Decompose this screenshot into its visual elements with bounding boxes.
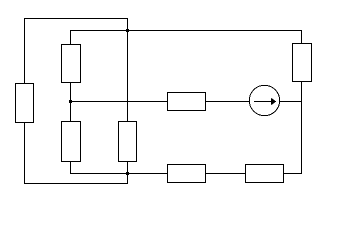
- wire bottom horizontal right segment: [284, 173, 303, 175]
- resistor R6: [168, 93, 206, 111]
- wire column B stub lower: [127, 161, 129, 184]
- wire column A stub middle: [70, 82, 72, 122]
- wire bottom horizontal middle segment: [206, 173, 247, 175]
- wire column B vertical upper: [127, 18, 129, 122]
- current source I1 arrow shaft: [254, 101, 272, 103]
- resistor R1: [16, 84, 34, 123]
- resistor R7: [168, 165, 206, 183]
- resistor R8: [246, 165, 284, 183]
- wire bottom horizontal left segment: [70, 173, 168, 175]
- wire bottom left horizontal: [24, 183, 128, 185]
- wire left vertical lower: [24, 122, 26, 184]
- wire middle horizontal left: [70, 101, 168, 103]
- current source I1 arrow head: [271, 98, 276, 105]
- wire second horizontal: [70, 30, 302, 32]
- wire top horizontal: [24, 18, 128, 20]
- node junction B-bottom: [126, 172, 129, 175]
- node junction B-top: [126, 29, 129, 32]
- wire right vertical lower: [301, 81, 303, 174]
- node junction A-mid: [69, 100, 72, 103]
- resistor R2: [62, 45, 81, 83]
- resistor R3: [62, 122, 81, 162]
- resistor R5: [293, 44, 312, 82]
- wire right vertical upper: [301, 30, 303, 44]
- wire middle horizontal to source: [206, 101, 251, 103]
- current source I1 circle: [249, 85, 279, 115]
- wire middle horizontal right: [280, 101, 303, 103]
- resistor R4: [119, 122, 137, 162]
- wire column A stub lower: [70, 161, 72, 174]
- wire left vertical upper: [24, 18, 26, 84]
- wire column A stub upper: [70, 30, 72, 44]
